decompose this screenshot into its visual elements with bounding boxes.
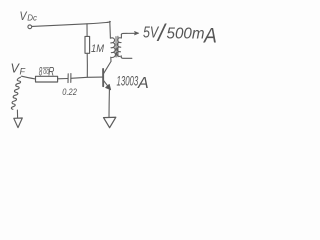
label 5V/500mA — [143, 20, 217, 48]
wire 1M bottom to base node — [86, 53, 88, 77]
wire Vdc to top corner — [32, 21, 110, 26]
transistor Q1 collector — [104, 61, 111, 73]
wire 800R to capacitor — [58, 78, 68, 80]
svg-text:0.22: 0.22 — [62, 86, 77, 97]
wire secondary top to output arrow — [121, 33, 137, 34]
label 800R overline — [43, 67, 48, 69]
node Vdc label — [20, 10, 37, 23]
svg-text:13003: 13003 — [117, 74, 139, 89]
svg-text:1M: 1M — [91, 43, 104, 55]
transformer T1 core — [115, 37, 117, 57]
wire primary bottom to collector node — [110, 57, 112, 61]
transformer T1 primary winding — [110, 38, 115, 58]
transistor Q1 emitter with arrow — [104, 81, 110, 89]
output arrowhead — [134, 31, 138, 35]
wire squiggle to arrow — [16, 110, 18, 118]
transformer T1 secondary winding — [117, 38, 122, 57]
svg-text:F: F — [20, 67, 26, 77]
wire emitter to ground — [108, 90, 110, 117]
resistor R1 1M body — [85, 36, 90, 53]
wire base — [71, 77, 103, 78]
svg-text:A: A — [137, 75, 149, 92]
capacitor C1 plates — [67, 74, 69, 83]
wire Vf to 800R — [22, 76, 36, 79]
svg-text:8: 8 — [39, 66, 43, 80]
svg-text:A: A — [203, 25, 217, 48]
node Vf label — [11, 62, 26, 77]
ground symbol — [104, 117, 116, 127]
label 1M — [91, 43, 104, 55]
inductor feedback winding squiggle — [11, 77, 20, 109]
Vdc terminal circle — [28, 25, 32, 29]
wire secondary bottom stub — [121, 57, 132, 58]
transistor Q1 base bar — [102, 69, 104, 86]
svg-text:Dc: Dc — [27, 13, 37, 22]
label 0.22 — [62, 86, 77, 97]
resistor R2 800R body — [36, 76, 58, 82]
wire stub to 1M resistor — [86, 24, 88, 37]
ground arrow at Vf — [14, 118, 22, 128]
wire corner down to transformer primary — [109, 21, 112, 38]
label 800R — [39, 66, 55, 80]
svg-text:R: R — [48, 66, 54, 79]
label 13003A — [117, 74, 149, 92]
svg-text:/: / — [156, 20, 167, 47]
svg-text:500m: 500m — [167, 25, 205, 42]
